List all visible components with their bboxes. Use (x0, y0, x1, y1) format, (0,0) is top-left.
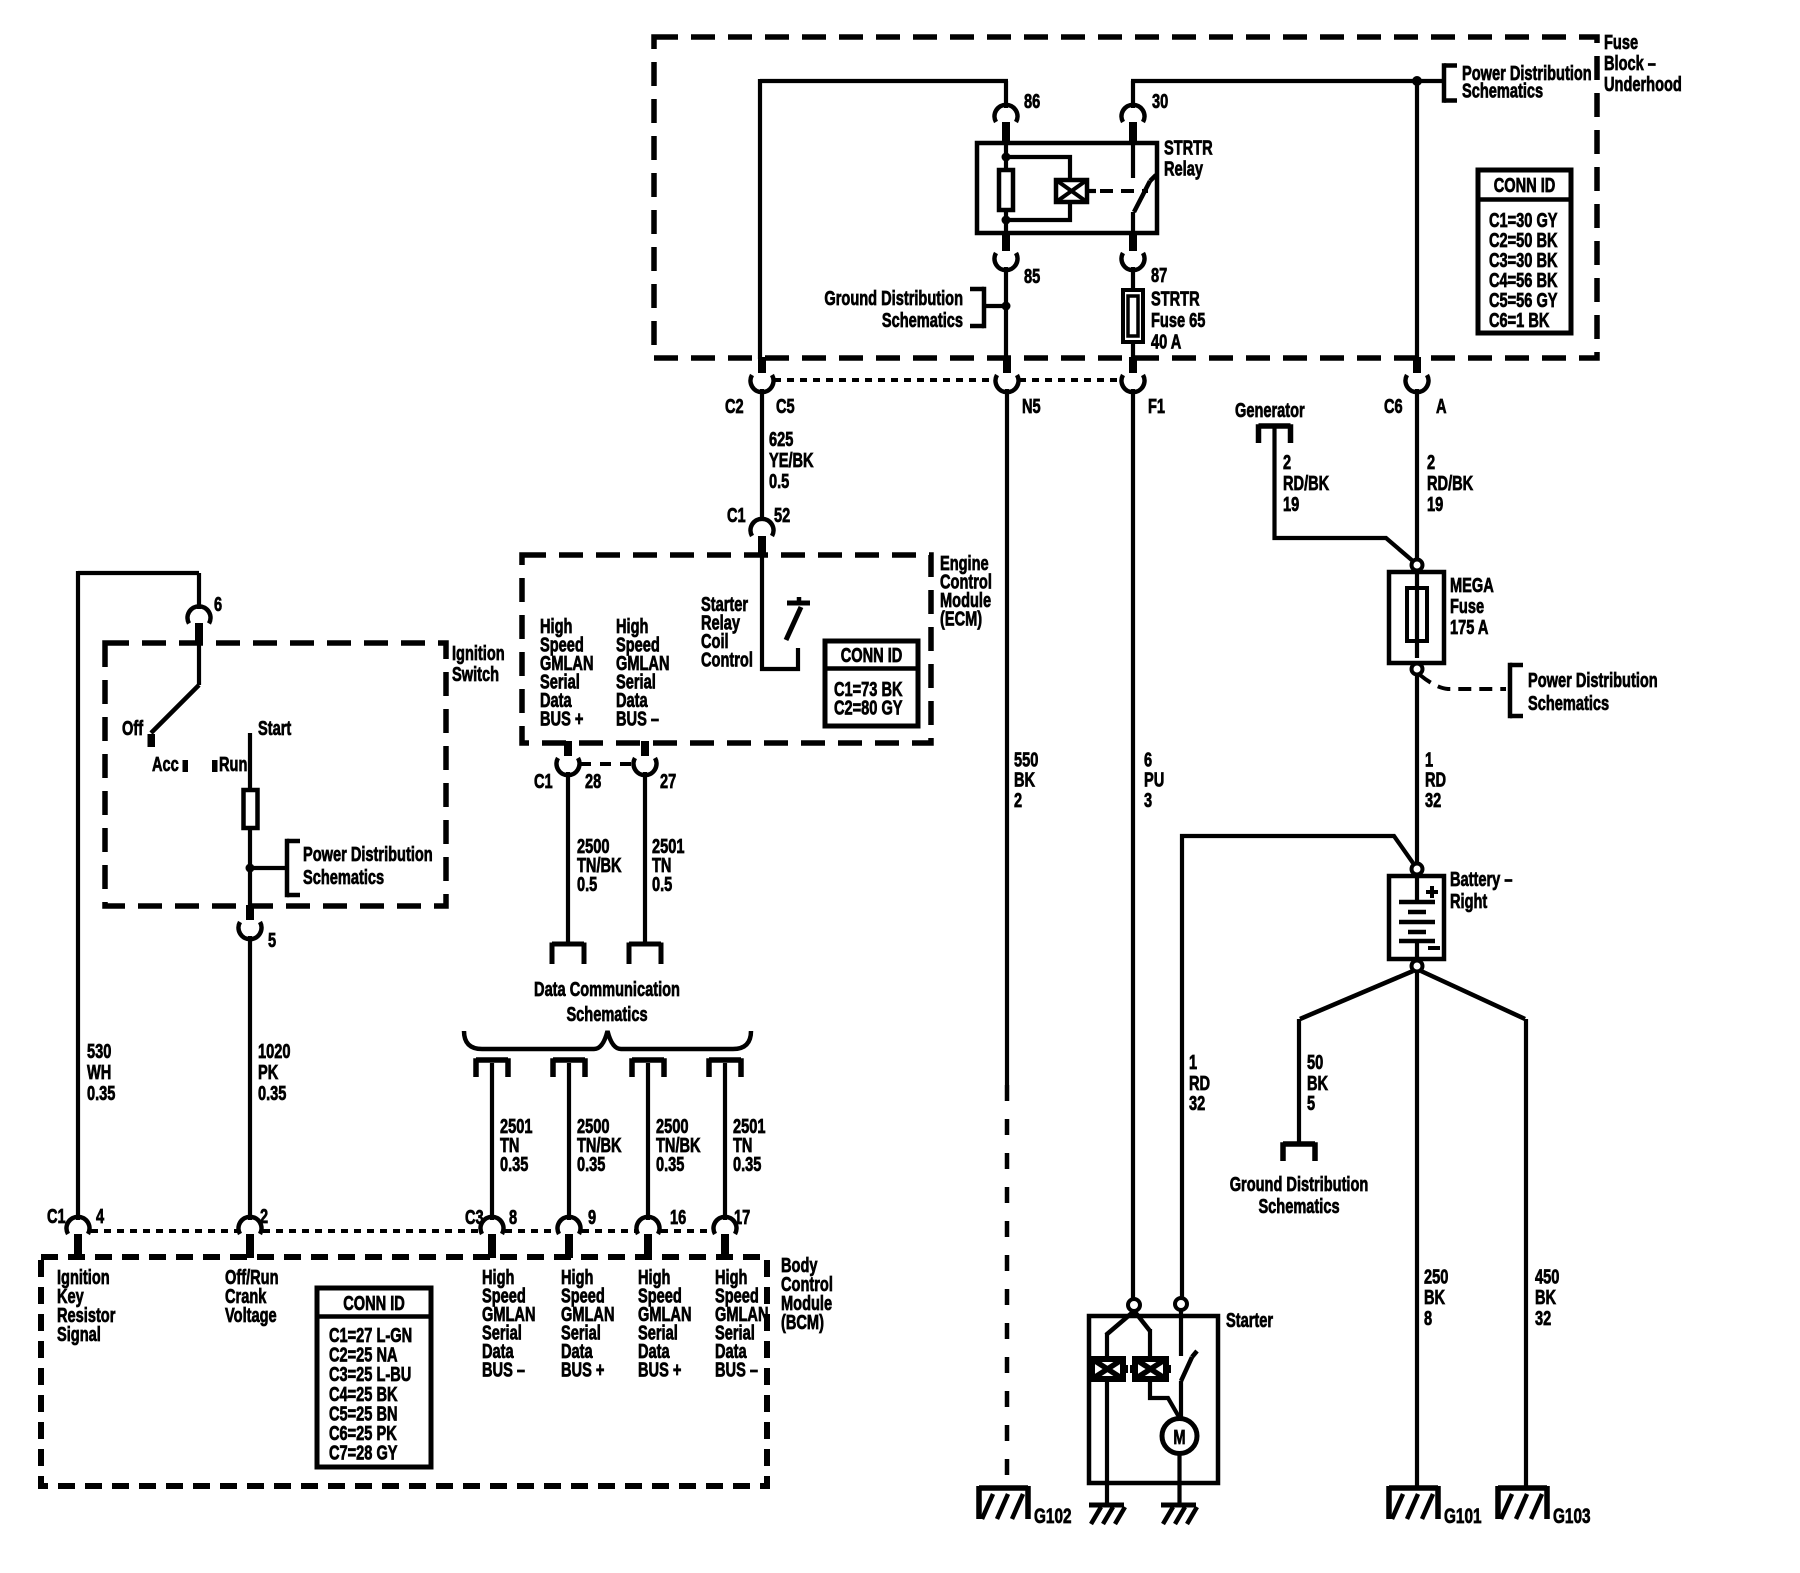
svg-text:Signal: Signal (57, 1323, 101, 1346)
svg-text:17: 17 (734, 1206, 750, 1229)
svg-text:19: 19 (1283, 493, 1299, 516)
svg-text:BUS +: BUS + (540, 707, 583, 730)
svg-text:MEGA: MEGA (1450, 574, 1494, 597)
svg-text:0.35: 0.35 (258, 1082, 287, 1105)
svg-text:BK: BK (1535, 1286, 1556, 1309)
svg-text:Fuse: Fuse (1450, 595, 1484, 618)
svg-text:32: 32 (1535, 1307, 1551, 1330)
svg-text:Generator: Generator (1235, 399, 1305, 422)
svg-text:Schematics: Schematics (882, 309, 963, 332)
svg-text:C1: C1 (727, 504, 746, 527)
svg-text:87: 87 (1151, 264, 1167, 287)
svg-text:C3: C3 (465, 1206, 484, 1229)
svg-text:530: 530 (87, 1040, 112, 1063)
svg-text:32: 32 (1425, 789, 1441, 812)
svg-text:F1: F1 (1148, 395, 1165, 418)
svg-text:8: 8 (509, 1206, 517, 1229)
svg-text:M: M (1173, 1426, 1185, 1449)
svg-text:BUS +: BUS + (638, 1358, 681, 1381)
svg-text:C7=28 GY: C7=28 GY (329, 1441, 398, 1464)
svg-text:1: 1 (1189, 1051, 1197, 1074)
svg-text:9: 9 (588, 1206, 596, 1229)
svg-text:A: A (1436, 395, 1447, 418)
svg-text:BUS +: BUS + (561, 1358, 604, 1381)
svg-text:BK: BK (1424, 1286, 1445, 1309)
svg-text:YE/BK: YE/BK (769, 449, 814, 472)
svg-text:C2=80 GY: C2=80 GY (834, 696, 903, 719)
svg-text:8: 8 (1424, 1307, 1432, 1330)
svg-text:3: 3 (1144, 789, 1152, 812)
svg-text:50: 50 (1307, 1051, 1323, 1074)
svg-text:G101: G101 (1444, 1504, 1481, 1528)
svg-text:175 A: 175 A (1450, 616, 1489, 639)
svg-text:BK: BK (1014, 768, 1035, 791)
svg-text:Control: Control (701, 648, 753, 671)
svg-text:19: 19 (1427, 493, 1443, 516)
svg-text:4: 4 (96, 1205, 104, 1228)
svg-text:Block –: Block – (1604, 52, 1656, 75)
svg-text:G102: G102 (1034, 1504, 1071, 1528)
svg-text:Ground Distribution: Ground Distribution (824, 287, 963, 310)
svg-text:Battery –: Battery – (1450, 868, 1513, 891)
svg-text:C2: C2 (725, 395, 744, 418)
svg-text:0.5: 0.5 (769, 470, 790, 493)
svg-text:625: 625 (769, 428, 794, 451)
svg-text:C6=1 BK: C6=1 BK (1489, 309, 1550, 332)
svg-text:RD/BK: RD/BK (1427, 472, 1474, 495)
svg-text:Relay: Relay (1164, 157, 1203, 180)
svg-text:RD/BK: RD/BK (1283, 472, 1330, 495)
svg-text:WH: WH (87, 1061, 111, 1084)
svg-text:C1: C1 (534, 770, 553, 793)
svg-text:32: 32 (1189, 1092, 1205, 1115)
svg-text:2: 2 (1427, 451, 1435, 474)
svg-text:0.35: 0.35 (500, 1153, 529, 1176)
svg-text:2: 2 (260, 1205, 268, 1228)
svg-text:STRTR: STRTR (1164, 136, 1213, 159)
svg-text:16: 16 (670, 1206, 686, 1229)
svg-text:40 A: 40 A (1151, 330, 1182, 353)
svg-text:85: 85 (1024, 265, 1040, 288)
svg-text:0.35: 0.35 (577, 1153, 606, 1176)
svg-text:Schematics: Schematics (566, 1003, 647, 1026)
svg-text:Run: Run (219, 753, 247, 776)
svg-text:RD: RD (1425, 768, 1446, 791)
svg-text:0.35: 0.35 (87, 1082, 116, 1105)
svg-text:Schematics: Schematics (1258, 1195, 1339, 1218)
svg-text:30: 30 (1152, 90, 1168, 113)
svg-text:BUS –: BUS – (482, 1358, 525, 1381)
svg-text:Ground Distribution: Ground Distribution (1230, 1173, 1369, 1196)
svg-text:STRTR: STRTR (1151, 287, 1200, 310)
svg-text:0.5: 0.5 (577, 873, 598, 896)
svg-text:CONN ID: CONN ID (343, 1292, 405, 1315)
svg-text:86: 86 (1024, 90, 1040, 113)
svg-text:5: 5 (1307, 1092, 1315, 1115)
svg-text:1020: 1020 (258, 1040, 291, 1063)
svg-text:PK: PK (258, 1061, 279, 1084)
svg-text:Schematics: Schematics (1528, 692, 1609, 715)
svg-text:Schematics: Schematics (303, 866, 384, 889)
svg-text:Ignition: Ignition (452, 642, 505, 665)
svg-text:450: 450 (1535, 1265, 1560, 1288)
svg-text:0.35: 0.35 (656, 1153, 685, 1176)
svg-text:Fuse 65: Fuse 65 (1151, 309, 1206, 332)
svg-text:Data Communication: Data Communication (534, 978, 680, 1001)
svg-text:52: 52 (774, 504, 790, 527)
svg-text:Underhood: Underhood (1604, 73, 1682, 96)
svg-text:Switch: Switch (452, 663, 499, 686)
svg-text:0.35: 0.35 (733, 1153, 762, 1176)
svg-text:Acc: Acc (152, 753, 179, 776)
svg-text:(ECM): (ECM) (940, 607, 982, 630)
svg-text:Power Distribution: Power Distribution (303, 843, 433, 866)
svg-text:Fuse: Fuse (1604, 31, 1638, 54)
svg-text:27: 27 (660, 770, 676, 793)
svg-text:Starter: Starter (1226, 1309, 1273, 1332)
svg-text:BUS –: BUS – (715, 1358, 758, 1381)
svg-text:Power Distribution: Power Distribution (1528, 669, 1658, 692)
svg-text:Off: Off (122, 717, 143, 740)
svg-text:Voltage: Voltage (225, 1304, 277, 1327)
svg-text:BUS –: BUS – (616, 707, 659, 730)
svg-text:28: 28 (585, 770, 601, 793)
svg-text:N5: N5 (1022, 395, 1041, 418)
svg-text:250: 250 (1424, 1265, 1449, 1288)
svg-text:0.5: 0.5 (652, 873, 673, 896)
svg-text:C5: C5 (776, 395, 795, 418)
svg-text:6: 6 (214, 593, 222, 616)
svg-text:CONN ID: CONN ID (1494, 174, 1556, 197)
svg-text:5: 5 (268, 929, 276, 952)
svg-text:PU: PU (1144, 768, 1164, 791)
svg-text:Start: Start (258, 717, 291, 740)
svg-text:Schematics: Schematics (1462, 79, 1543, 102)
svg-text:CONN ID: CONN ID (841, 644, 903, 667)
svg-text:G103: G103 (1553, 1504, 1590, 1528)
svg-text:2: 2 (1014, 789, 1022, 812)
svg-text:C1: C1 (47, 1205, 66, 1228)
svg-text:C6: C6 (1384, 395, 1403, 418)
svg-text:Right: Right (1450, 890, 1487, 913)
svg-text:2: 2 (1283, 451, 1291, 474)
svg-text:(BCM): (BCM) (781, 1311, 824, 1334)
